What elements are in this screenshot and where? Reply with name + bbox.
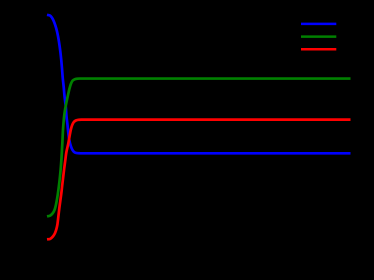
red curve: [47, 120, 351, 240]
legend red sample: [301, 48, 336, 51]
blue curve: [47, 15, 351, 154]
green curve: [47, 79, 351, 217]
legend green sample: [301, 35, 336, 38]
legend blue sample: [301, 23, 336, 26]
